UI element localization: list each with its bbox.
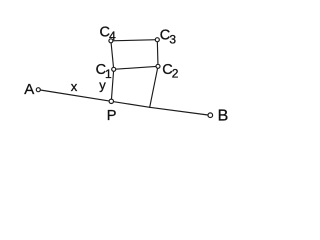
node C1 — [112, 67, 116, 71]
wire C4-C1 left edge — [111, 41, 114, 70]
node A — [36, 88, 40, 92]
svg-text:3: 3 — [169, 33, 176, 47]
node C3 — [155, 38, 159, 42]
wire C4-C3 top edge — [111, 40, 157, 41]
wire C2-F — [150, 66, 158, 107]
wire C1-C2 bottom edge — [114, 66, 158, 69]
svg-text:B: B — [218, 108, 229, 125]
node C4 — [109, 39, 113, 43]
node B — [208, 113, 213, 118]
svg-text:P: P — [107, 108, 117, 124]
svg-text:2: 2 — [172, 66, 179, 80]
wire segment P-F — [111, 101, 149, 107]
wire segment A-P — [40, 90, 111, 101]
svg-text:1: 1 — [105, 67, 112, 81]
svg-text:4: 4 — [109, 29, 116, 43]
node C2 — [156, 64, 160, 68]
node P — [109, 99, 113, 103]
wire C1-P — [111, 69, 113, 101]
svg-text:A: A — [24, 81, 34, 98]
svg-text:x: x — [71, 79, 78, 94]
wire C3-C2 right edge — [156, 40, 159, 67]
wire segment F-B — [150, 107, 208, 115]
